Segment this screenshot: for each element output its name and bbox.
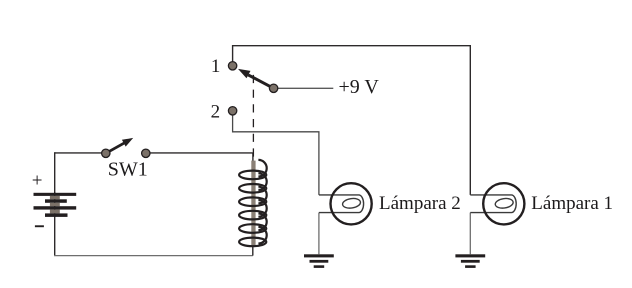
wire: battery negative lead bbox=[54, 217, 56, 256]
svg-text:Lámpara 1: Lámpara 1 bbox=[531, 193, 613, 214]
svg-text:+: + bbox=[32, 170, 43, 191]
relay common pivot dot bbox=[269, 84, 277, 92]
svg-text:+9 V: +9 V bbox=[339, 76, 380, 98]
lamp Lámpara 2 bulb circle bbox=[331, 183, 372, 224]
svg-text:Lámpara 2: Lámpara 2 bbox=[379, 193, 461, 214]
wire: coil top lead bbox=[252, 153, 254, 162]
contact 2 dot bbox=[228, 107, 236, 115]
relay armature blade with arrowhead bbox=[238, 69, 274, 88]
ground under lamp 2 bbox=[304, 254, 334, 268]
lamp Lámpara 1 filament stem and loop bbox=[470, 195, 516, 213]
wire: +9 V feed to relay pivot bbox=[274, 87, 334, 89]
contact 1 dot bbox=[228, 62, 236, 70]
wire: lamp 1 lower stub bus down to ground bbox=[469, 213, 471, 255]
lamp Lámpara 1 bulb circle bbox=[483, 183, 524, 224]
wire: contact 2 down, right, and down to lamp 2 bbox=[233, 112, 319, 195]
switch SW1 left pole dot bbox=[102, 149, 110, 157]
wire: drop from top wire to contact 1 bbox=[232, 45, 234, 63]
svg-text:2: 2 bbox=[211, 101, 221, 122]
coil core bar bbox=[251, 161, 255, 246]
wire: coil bottom to loop bottom bbox=[252, 246, 254, 256]
wire: left loop bottom bbox=[54, 255, 253, 257]
battery - label bbox=[35, 225, 44, 227]
battery bbox=[34, 192, 77, 217]
svg-text:SW1: SW1 bbox=[108, 158, 148, 180]
switch SW1 blade with arrowhead bbox=[106, 138, 133, 153]
wire: top wire from contact 1 to right bus bbox=[233, 45, 471, 47]
switch SW1 right pole dot bbox=[142, 149, 150, 157]
lamp Lámpara 2 filament stem and loop bbox=[319, 195, 364, 213]
wire: left loop top, SW1 right pole to coil bbox=[150, 152, 253, 154]
wire: left loop top, battery to SW1 left pole bbox=[55, 152, 102, 154]
wire: lamp 2 lower stub bus down to ground bbox=[318, 213, 320, 255]
lamp Lámpara 2 filament ellipse bbox=[342, 197, 361, 209]
coil windings (relay coil) bbox=[239, 160, 267, 246]
wire: battery positive lead bbox=[54, 152, 56, 192]
wire: right bus upper (top wire down to lamp 1 upper stub) bbox=[469, 45, 471, 195]
lamp Lámpara 1 filament ellipse bbox=[495, 197, 514, 209]
svg-text:1: 1 bbox=[211, 56, 221, 77]
ground under lamp 1 bbox=[455, 254, 485, 268]
dashed mechanical linkage from relay armature to coil bbox=[252, 75, 254, 157]
